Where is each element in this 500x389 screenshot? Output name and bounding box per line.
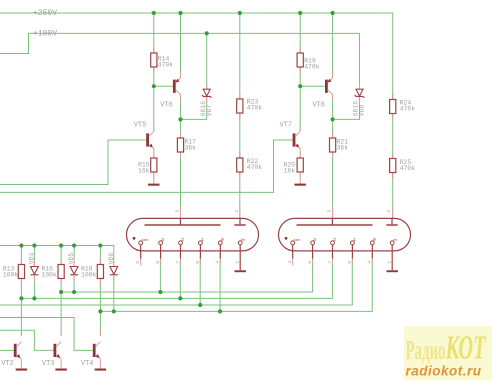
VL1 anode bar (pin 3) bbox=[145, 210, 221, 225]
wire R14 to node bbox=[153, 67, 155, 86]
junction bus K2/R16/VT3 bbox=[59, 290, 63, 294]
junction bias rail/R18 bbox=[98, 243, 102, 247]
wire node to VD7 cathode bbox=[181, 97, 207, 120]
svg-text:VD7: VD7 bbox=[206, 105, 213, 117]
transistor VT2 (NPN) bbox=[1, 342, 21, 368]
svg-text:VD5: VD5 bbox=[68, 253, 75, 265]
svg-text:16k: 16k bbox=[284, 168, 296, 175]
nixie tube VL1 (IN-12) bbox=[127, 218, 259, 251]
resistor R17 bbox=[177, 132, 196, 158]
resistor R15 bbox=[138, 152, 157, 178]
wire +100V rail bbox=[0, 33, 360, 89]
junction bias rail/R16 bbox=[59, 243, 63, 247]
svg-text:2: 2 bbox=[386, 210, 392, 213]
svg-text:2: 2 bbox=[234, 210, 240, 213]
svg-text:VT5: VT5 bbox=[134, 122, 146, 130]
nixie tube VL2 (IN-12) bbox=[279, 218, 411, 251]
wire R17 to tube VL1 pin 3 bbox=[180, 152, 182, 218]
wire VD5 cathode to bus K2 bbox=[73, 276, 75, 292]
wire cathode bus K5 bbox=[100, 264, 372, 312]
node R14/VT6 base/VT5 collector bbox=[152, 84, 156, 88]
resistor R20 bbox=[284, 152, 304, 178]
wire node to VD8 cathode bbox=[333, 97, 360, 120]
svg-text:470k: 470k bbox=[304, 64, 320, 71]
zener diode VD7 6816 bbox=[200, 89, 213, 116]
wire VD4 cathode to bus K3 bbox=[33, 276, 35, 298]
VL2 cathode pin 4 (зап) bbox=[287, 239, 300, 266]
node VT6 collector/VD7/R17 bbox=[178, 117, 182, 121]
wire cathode bus K4 bbox=[0, 264, 352, 305]
junction +250V/R19 bbox=[298, 11, 302, 15]
wire +250V to VT6 emitter bbox=[180, 13, 182, 78]
VL1 index marker dot bbox=[133, 237, 136, 240]
junction bias rail/VD5 bbox=[72, 243, 76, 247]
resistor R23 bbox=[237, 93, 263, 119]
svg-text:100k: 100k bbox=[42, 272, 58, 279]
svg-text:VT7: VT7 bbox=[280, 122, 292, 130]
transistor VT8 (PNP) bbox=[312, 78, 332, 110]
wire node to VT7 collector bbox=[299, 86, 301, 131]
diode VD5 bbox=[68, 253, 78, 275]
resistor R22 bbox=[237, 152, 263, 178]
wire node to VT5 collector bbox=[153, 86, 155, 131]
ground bbox=[16, 359, 27, 370]
svg-text:3: 3 bbox=[313, 237, 316, 243]
wire R19 to node bbox=[299, 67, 301, 86]
component pin stubs bbox=[21, 47, 392, 336]
svg-text:470k: 470k bbox=[158, 62, 174, 69]
wire cathode bus K2 bbox=[61, 264, 313, 292]
svg-text:VT3: VT3 bbox=[42, 360, 54, 368]
ground bbox=[55, 359, 66, 370]
wire R18 to bus K5 bbox=[99, 279, 101, 312]
wire node to R17 bbox=[180, 119, 182, 138]
svg-text:0: 0 bbox=[221, 237, 224, 243]
zener diode VD8 6816 bbox=[353, 89, 366, 116]
svg-text:3: 3 bbox=[174, 210, 180, 213]
wire input to VT7 base bbox=[0, 140, 293, 192]
resistor R25 bbox=[390, 153, 416, 179]
VL2 cathode pin 4 (0) bbox=[367, 237, 376, 264]
VL1 cathode pin 1 (бн) bbox=[235, 238, 246, 272]
wire bus K2 to VT3 collector bbox=[60, 292, 62, 336]
junction bus K5/VD6 bbox=[112, 309, 116, 313]
svg-text:VD6: VD6 bbox=[108, 253, 115, 265]
wire +250V to R23 bbox=[239, 13, 241, 99]
diode VD6 bbox=[108, 253, 118, 275]
svg-text:470k: 470k bbox=[400, 165, 416, 172]
svg-text:36k: 36k bbox=[337, 145, 349, 152]
wire R21 to tube VL2 pin 3 bbox=[332, 152, 334, 218]
wire bus K3 to VT2 collector bbox=[20, 298, 22, 336]
svg-text:+100V: +100V bbox=[33, 30, 57, 39]
VL2 cathode pin 5 (3) bbox=[307, 237, 316, 264]
VL2 cathode pin 8 (1) bbox=[347, 237, 356, 264]
resistor R24 bbox=[390, 94, 416, 120]
svg-text:36k: 36k bbox=[185, 145, 197, 152]
junction bus K5/VL1 pin 4 bbox=[218, 309, 222, 313]
wire VL1 pin 4 to bus K5 bbox=[219, 264, 221, 312]
svg-text:470k: 470k bbox=[400, 106, 416, 113]
svg-text:16k: 16k bbox=[138, 168, 150, 175]
wire +250V to R19 bbox=[299, 13, 301, 53]
resistor R13 bbox=[3, 259, 25, 285]
svg-text:VT8: VT8 bbox=[312, 102, 324, 110]
wire input to VT4 base bbox=[0, 318, 93, 351]
wire R22 to tube VL1 pin 2 bbox=[239, 172, 241, 218]
svg-text:Радио: Радио bbox=[406, 335, 446, 365]
junction +250V/VT8 emitter bbox=[331, 11, 335, 15]
svg-text:radiokot.ru: radiokot.ru bbox=[406, 364, 482, 379]
wire bus K5 to VT4 collector bbox=[99, 311, 101, 336]
wire cathode bus K3 bbox=[21, 264, 332, 299]
svg-text:VT4: VT4 bbox=[81, 360, 93, 368]
junction +250V/R14 bbox=[152, 11, 156, 15]
wire +250V to VT8 emitter bbox=[332, 13, 334, 78]
transistor VT7 (NPN) bbox=[280, 122, 301, 149]
wire VL1 pin 8 to bus K4 bbox=[199, 264, 201, 305]
svg-text:470k: 470k bbox=[247, 164, 263, 171]
ground bbox=[295, 183, 306, 186]
VL1 cathode pin 7 (2) bbox=[175, 237, 184, 264]
wire VL1 pin 6 to bus K2 bbox=[159, 264, 161, 292]
junction bus K3/VL1 pin 7 bbox=[178, 296, 182, 300]
wire bias rail to VD6 anode bbox=[0, 246, 114, 267]
wire node to VT6 base bbox=[154, 85, 174, 87]
svg-text:100k: 100k bbox=[3, 272, 19, 279]
resistor R21 bbox=[330, 132, 349, 158]
svg-text:VD4: VD4 bbox=[28, 253, 35, 265]
wire R24 to R25 bbox=[392, 114, 394, 159]
transistor VT5 (NPN) bbox=[134, 122, 154, 149]
svg-text:0: 0 bbox=[373, 237, 376, 243]
junction +100V/VD7 bbox=[205, 31, 209, 35]
junction bias rail/VD4 bbox=[32, 243, 36, 247]
wire VT8 collector to node bbox=[332, 94, 334, 119]
wire VL1 pin 7 to bus K3 bbox=[179, 264, 181, 299]
wire VT6 collector to node bbox=[180, 94, 182, 119]
wire R25 to tube VL2 pin 2 bbox=[392, 173, 394, 219]
ground bbox=[95, 359, 106, 370]
VL2 cathode pin 7 (2) bbox=[327, 237, 336, 264]
wire input to VT3 base bbox=[0, 330, 54, 350]
svg-text:1: 1 bbox=[353, 237, 356, 243]
wire +100V to VD7 anode bbox=[206, 33, 208, 89]
junction bus K2/VD5 bbox=[72, 290, 76, 294]
transistor VT3 (NPN) bbox=[42, 342, 61, 368]
resistor R16 bbox=[42, 259, 65, 285]
svg-text:100k: 100k bbox=[81, 272, 97, 279]
VL2 index marker dot bbox=[285, 237, 288, 240]
svg-text:кн: кн bbox=[393, 239, 397, 243]
junction bias rail/R13 bbox=[19, 243, 23, 247]
junction bus K5/R18/VT4 bbox=[98, 309, 102, 313]
VL2 grid element (pin 2) bbox=[386, 210, 398, 225]
diode VD4 bbox=[28, 253, 38, 275]
wire node to R21 bbox=[332, 119, 334, 138]
svg-text:2: 2 bbox=[333, 237, 336, 243]
svg-text:VT2: VT2 bbox=[1, 360, 13, 368]
junction +250V/R23 bbox=[238, 11, 242, 15]
svg-text:2: 2 bbox=[181, 237, 184, 243]
svg-text:3: 3 bbox=[161, 237, 164, 243]
resistor R18 bbox=[81, 259, 104, 285]
VL1 cathode pin 4 (0) bbox=[215, 237, 224, 264]
node R19/VT8 base/VT7 collector bbox=[298, 84, 302, 88]
wire VD6 cathode to bus K5 bbox=[113, 276, 115, 311]
wire node to VT8 base bbox=[300, 85, 326, 87]
svg-text:+250V: +250V bbox=[33, 9, 57, 18]
VL1 cathode pin 8 (1) bbox=[195, 237, 204, 264]
svg-text:3: 3 bbox=[326, 210, 332, 213]
wire bias rail to R18 bbox=[99, 246, 101, 265]
VL2 anode bar (pin 3) bbox=[297, 210, 373, 225]
wire R23 to R22 bbox=[239, 113, 241, 158]
junction +250V/VT6 emitter bbox=[178, 11, 182, 15]
junction bus K4/VL1 pin 8 bbox=[198, 303, 202, 307]
svg-text:КОТ: КОТ bbox=[445, 329, 487, 367]
svg-text:VD8: VD8 bbox=[359, 105, 366, 117]
svg-text:зап: зап bbox=[141, 239, 148, 243]
wire bias rail to VD5 anode bbox=[73, 246, 75, 267]
node VT8 collector/VD8/R21 bbox=[331, 117, 335, 121]
wire R16 to bus K2 bbox=[60, 279, 62, 293]
wire input to VT2 base bbox=[0, 349, 14, 351]
wire +250V rail bbox=[0, 13, 393, 100]
svg-text:VT6: VT6 bbox=[160, 102, 172, 110]
wire R13 to bus K3 bbox=[20, 279, 22, 299]
VL1 cathode pin 5 (зап) bbox=[135, 239, 148, 266]
ground bbox=[148, 183, 159, 186]
VL1 cathode pin 6 (3) bbox=[155, 237, 164, 264]
wire bias rail to R13 bbox=[20, 246, 22, 265]
junction bus K2/VL1 pin 6 bbox=[158, 290, 162, 294]
watermark radiokot.ru logo bbox=[404, 326, 492, 381]
svg-text:1: 1 bbox=[201, 237, 204, 243]
transistor VT4 (NPN) bbox=[81, 342, 100, 368]
junction bus K3/VD4 bbox=[32, 296, 36, 300]
resistor R14 bbox=[151, 47, 174, 73]
VL1 grid element (pin 2) bbox=[234, 210, 246, 225]
wire bias rail to VD4 anode bbox=[33, 246, 35, 267]
resistor R19 bbox=[297, 47, 320, 73]
svg-text:зап: зап bbox=[293, 239, 300, 243]
junction bus K3/R13/VT2 bbox=[19, 296, 23, 300]
svg-text:470k: 470k bbox=[247, 105, 263, 112]
wire +250V to R14 bbox=[153, 13, 155, 53]
transistor VT6 (PNP) bbox=[160, 78, 180, 110]
svg-text:бн: бн bbox=[241, 238, 245, 243]
VL2 cathode pin 1 (кн) bbox=[387, 239, 398, 272]
wire input to VT5 base bbox=[0, 140, 146, 185]
wire bias rail to R16 bbox=[60, 246, 62, 265]
